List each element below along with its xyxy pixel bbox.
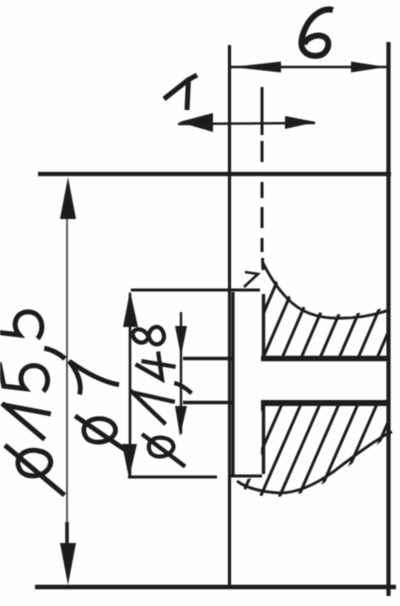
dimension dia1.48 extension bottom [183, 401, 232, 405]
wire right face line [386, 42, 390, 596]
counterbore right edge lower [262, 406, 265, 474]
small hole top line [261, 356, 389, 362]
dimension dia1.48 line [180, 312, 182, 434]
dimension dia7 extension top [131, 289, 260, 292]
dimension dia7 line [129, 293, 132, 476]
dimension dia7 extension bottom [128, 476, 217, 479]
centerline dashed x=262 [262, 87, 263, 270]
label dia1.48 [128, 326, 194, 469]
hatching upper region [238, 254, 400, 372]
dimension 6 line [229, 66, 387, 69]
break line lower curve [237, 432, 392, 493]
dimension dia15.5 line [66, 212, 68, 548]
dimension dia1.48 arrow lower pointing down [175, 406, 187, 436]
hatching lower region [214, 388, 400, 516]
dimension dia1.48 extension top [183, 357, 232, 361]
label dia15.5 [0, 303, 75, 499]
break line upper curve [263, 263, 389, 318]
label 1 [164, 75, 197, 110]
counterbore right edge upper [262, 294, 265, 356]
dimension dia15.5 arrow up [60, 177, 76, 219]
break line zigzag [244, 272, 258, 287]
counterbore left edge [231, 292, 234, 477]
dimension dia7 arrow up [123, 291, 138, 327]
dimension dia15.5 shaft lower dark segment [65, 522, 69, 548]
dimension 6 arrow left [232, 62, 281, 73]
dimension 1 arrow right [285, 116, 316, 129]
dimension dia7 arrow down [122, 444, 137, 478]
label 6 [301, 9, 333, 55]
dimension dia1.48 arrow upper pointing down [175, 326, 187, 356]
wire top face line [38, 172, 391, 176]
label dia7 [69, 357, 128, 455]
dimension dia15.5 arrow down [60, 543, 76, 585]
counterbore bottom edge [231, 475, 262, 478]
wire left face line [228, 45, 231, 589]
wire bottom face line [35, 585, 396, 590]
dimension 1 arrow left [179, 113, 213, 132]
small hole bottom line [261, 400, 389, 406]
dimension 1 line [178, 123, 315, 124]
dimension 6 arrow right [351, 62, 386, 73]
